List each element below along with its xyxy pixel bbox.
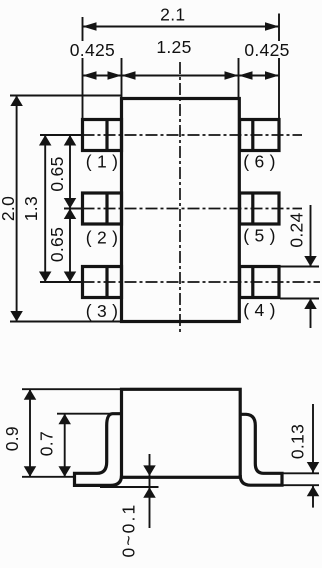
svg-text:0~0.1: 0~0.1: [119, 505, 139, 558]
svg-text:( 2 ): ( 2 ): [86, 228, 119, 248]
svg-text:0.425: 0.425: [70, 40, 115, 60]
svg-text:1.3: 1.3: [21, 196, 41, 221]
svg-text:1.25: 1.25: [156, 37, 191, 57]
svg-text:( 6 ): ( 6 ): [243, 152, 276, 172]
svg-text:2.1: 2.1: [160, 4, 185, 24]
svg-text:0.425: 0.425: [244, 40, 289, 60]
svg-text:0.24: 0.24: [287, 212, 307, 247]
svg-text:2.0: 2.0: [0, 196, 18, 221]
svg-text:( 4 ): ( 4 ): [243, 300, 276, 320]
svg-text:0.7: 0.7: [37, 431, 57, 456]
svg-text:( 5 ): ( 5 ): [243, 225, 276, 245]
svg-text:0.13: 0.13: [287, 424, 307, 459]
svg-text:0.9: 0.9: [2, 426, 22, 451]
svg-text:0.65: 0.65: [47, 227, 67, 262]
svg-text:0.65: 0.65: [47, 156, 67, 191]
svg-text:( 3 ): ( 3 ): [86, 301, 119, 321]
svg-text:( 1 ): ( 1 ): [86, 152, 119, 172]
